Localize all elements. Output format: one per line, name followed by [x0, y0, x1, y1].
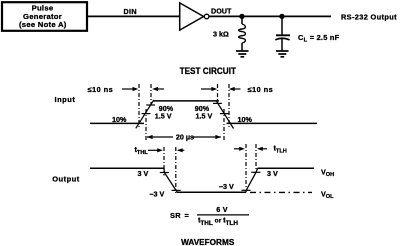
svg-text:SR: SR — [170, 211, 181, 220]
svg-text:WAVEFORMS: WAVEFORMS — [181, 237, 234, 246]
dash-dot line at input rise 10% (x=139) — [138, 84, 140, 129]
arrow <=10ns right-pair right-pointing — [201, 87, 217, 91]
cross arm at output fall -3V — [172, 189, 181, 191]
svg-text:1.5 V: 1.5 V — [196, 112, 213, 121]
output waveform VOL solid segment — [177, 191, 246, 193]
arrow 20us left-pointing — [147, 135, 173, 139]
svg-text:3 V: 3 V — [138, 169, 149, 178]
input waveform falling ramp — [216, 100, 234, 128]
arrow <=10ns right-pair left-pointing — [229, 87, 241, 91]
svg-text:1.5 V: 1.5 V — [155, 112, 172, 121]
input waveform rising ramp — [136, 100, 154, 128]
cross arm at input fall 90% — [213, 102, 222, 104]
svg-text:10%: 10% — [238, 115, 253, 124]
svg-text:DOUT: DOUT — [211, 7, 232, 16]
svg-text:(see Note A): (see Note A) — [19, 20, 67, 29]
wire DOUT: bubble to RS-232 output — [209, 15, 331, 17]
cross arm at output rise 3V — [251, 171, 260, 173]
cross arm at input rise 90% — [146, 104, 155, 106]
junction dot at resistor node — [239, 14, 244, 19]
arrow tTHL left-pointing — [177, 148, 184, 152]
svg-text:Input: Input — [55, 95, 76, 104]
cross arm at input rise midpoint 1.5V — [142, 113, 151, 115]
dash-dot line at output fall 3V (x=164) — [163, 147, 165, 176]
arrow tTHL right-pointing — [148, 148, 163, 152]
dash-dot line at input fall 90% (x=217.5) — [217, 84, 219, 104]
dash-dot line at input rise midpoint (x=146) — [145, 109, 147, 141]
output waveform VOH left segment — [90, 167, 164, 169]
svg-text:3 kΩ: 3 kΩ — [213, 30, 229, 39]
arrow tTLH right-pointing — [234, 147, 245, 151]
svg-text:DIN: DIN — [124, 7, 137, 16]
svg-text:20 µs: 20 µs — [176, 132, 194, 141]
dash-dot line at output rise -3V (x=246) — [245, 144, 247, 188]
inverter output bubble — [204, 14, 209, 19]
svg-text:6 V: 6 V — [216, 205, 227, 214]
svg-text:3 V: 3 V — [267, 169, 278, 178]
input waveform high segment — [153, 100, 219, 102]
svg-text:≤10 ns: ≤10 ns — [88, 85, 114, 94]
ground symbol under capacitor — [276, 51, 289, 57]
cross arm at output rise -3V — [241, 189, 250, 191]
ground symbol under resistor — [236, 51, 249, 57]
capacitor CL — [275, 16, 290, 50]
svg-text:≤10 ns: ≤10 ns — [248, 85, 274, 94]
input waveform low segment left — [90, 122, 144, 124]
svg-text:RS-232 Output: RS-232 Output — [341, 12, 397, 21]
arrow <=10ns left-pair right-pointing — [122, 87, 138, 91]
cross arm at input fall midpoint 1.5V — [220, 113, 229, 115]
input waveform low segment right — [227, 122, 318, 124]
resistor 3 kOhm (coil) — [239, 16, 246, 50]
arrow tTLH left-pointing — [257, 147, 267, 151]
dash-dot line at input rise 90% (x=151.5) — [150, 84, 152, 106]
svg-text:=: = — [185, 211, 190, 220]
pulse generator box (see Note A) — [2, 2, 87, 31]
svg-text:Output: Output — [52, 174, 80, 183]
svg-text:TEST CIRCUIT: TEST CIRCUIT — [180, 65, 237, 76]
dash-dot line at output rise 3V (x=256) — [255, 144, 257, 170]
output waveform VOH right segment — [258, 167, 315, 169]
svg-text:10%: 10% — [112, 115, 127, 124]
formula SR = 6V / (tTHL or tTLH) — [170, 205, 249, 227]
svg-text:–3 V: –3 V — [150, 189, 165, 198]
inverter driver U1 (triangle) — [180, 3, 204, 30]
output waveform rising ramp — [246, 168, 258, 192]
dash-dot line at input fall 10% (x=228.7) — [228, 84, 230, 129]
junction dot at capacitor node — [279, 14, 284, 19]
dash-dot line at output fall -3V (x=175.8) — [175, 147, 177, 193]
output waveform falling ramp — [164, 168, 177, 192]
VOL reference dash-dot line — [250, 191, 312, 193]
svg-text:–3 V: –3 V — [219, 182, 234, 191]
cross arm at output fall 3V — [160, 172, 169, 174]
wire DIN: pulse generator to inverter input — [88, 15, 180, 17]
dash-dot line at input fall midpoint (x=224) — [223, 109, 225, 141]
arrow <=10ns left-pair left-pointing — [152, 87, 164, 91]
arrow 20us right-pointing — [193, 135, 222, 139]
